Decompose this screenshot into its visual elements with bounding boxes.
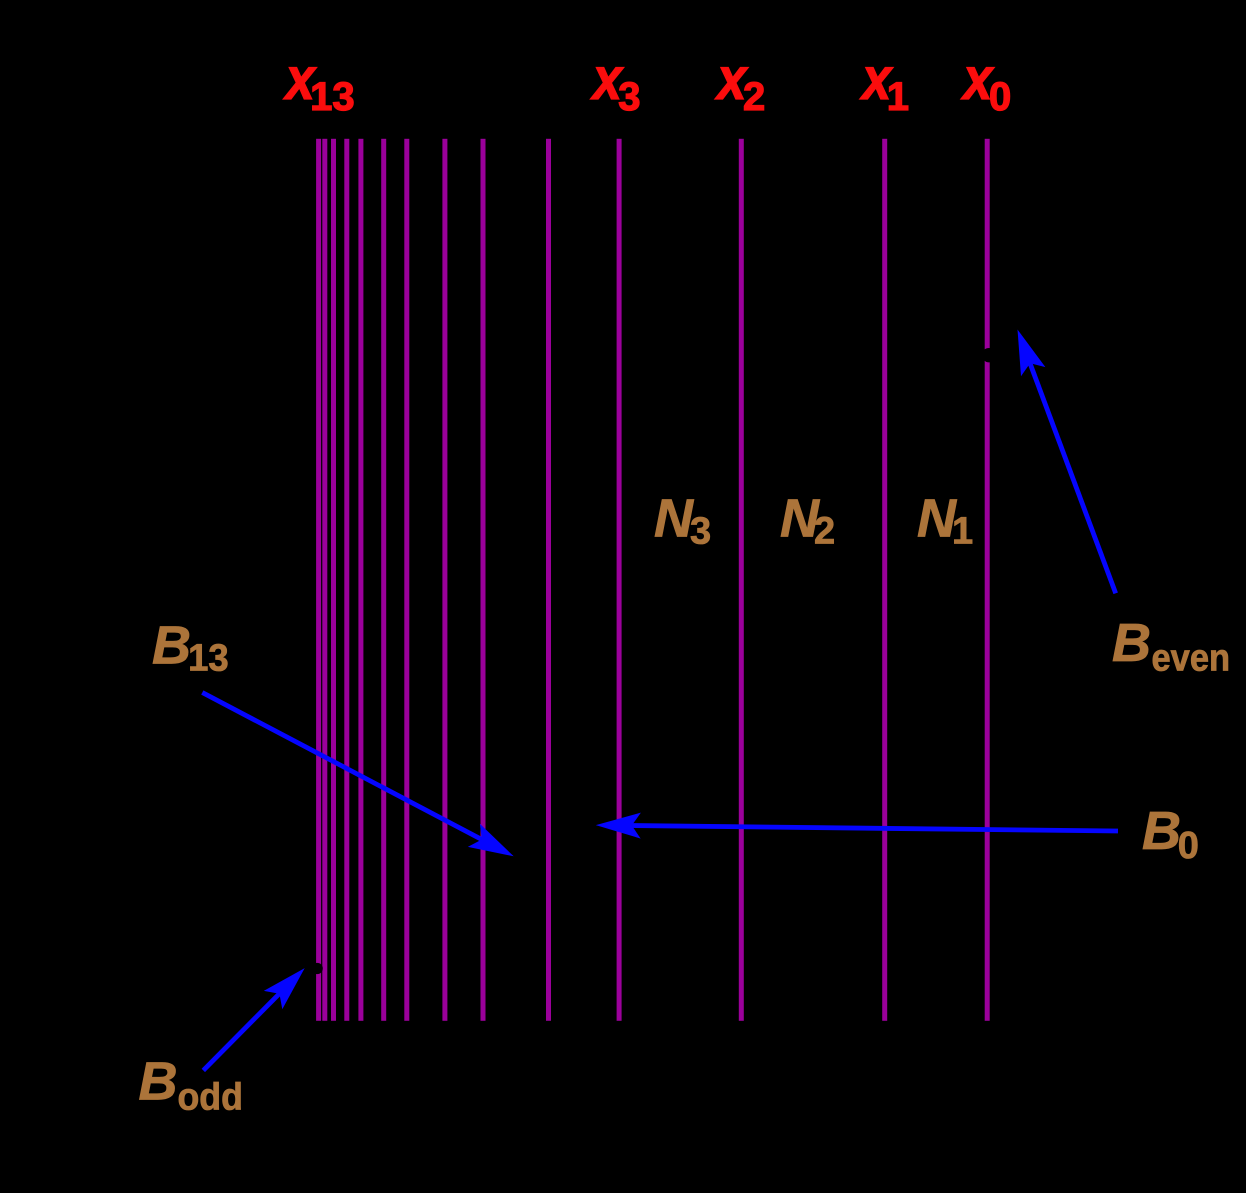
svg-text:1: 1	[952, 511, 973, 553]
arrow to B_even head	[1018, 330, 1046, 377]
line x10 (vertical purple segment at x=346.6)	[344, 139, 349, 1021]
svg-text:B: B	[139, 1052, 178, 1112]
line x0 (vertical purple segment at x=987.0)	[985, 139, 990, 1021]
arrow to B_even shaft	[1029, 362, 1115, 594]
arrow to B_13 head	[468, 824, 514, 857]
point B_even (black dot on line x0)	[982, 348, 996, 362]
line x12 (vertical purple segment at x=324.6)	[322, 139, 327, 1021]
svg-text:13: 13	[310, 75, 355, 119]
line x6 (vertical purple segment at x=444.7)	[442, 139, 447, 1021]
line x9 (vertical purple segment at x=360.7)	[358, 139, 363, 1021]
svg-text:3: 3	[690, 511, 711, 553]
arrow to B_odd shaft	[203, 992, 280, 1070]
point B_odd (black dot on line x13)	[312, 963, 323, 974]
line x3 (vertical purple segment at x=618.9)	[617, 139, 622, 1021]
svg-text:odd: odd	[178, 1075, 243, 1117]
line x4 (vertical purple segment at x=548.3)	[546, 139, 551, 1021]
svg-text:0: 0	[989, 75, 1011, 119]
svg-text:N: N	[917, 488, 957, 548]
svg-text:B: B	[152, 616, 191, 676]
svg-text:N: N	[654, 488, 694, 548]
arrow to B_13 shaft	[202, 693, 483, 841]
line x5 (vertical purple segment at x=482.8)	[481, 139, 486, 1021]
svg-text:13: 13	[188, 636, 229, 679]
line x13 (vertical purple segment at x=318.4)	[316, 139, 321, 1021]
line x11 (vertical purple segment at x=333.3)	[331, 139, 336, 1021]
line x1 (vertical purple segment at x=884.5)	[882, 139, 887, 1021]
svg-text:2: 2	[743, 75, 765, 119]
svg-text:B: B	[1142, 801, 1181, 861]
svg-text:even: even	[1152, 636, 1231, 679]
line x8 (vertical purple segment at x=383.5)	[381, 139, 386, 1021]
svg-text:B: B	[1112, 613, 1151, 673]
svg-text:2: 2	[814, 511, 835, 553]
arrow to B_0 shaft	[630, 826, 1118, 832]
line x2 (vertical purple segment at x=741.1)	[739, 139, 744, 1021]
svg-text:0: 0	[1178, 825, 1199, 867]
svg-text:1: 1	[887, 75, 909, 119]
svg-text:3: 3	[618, 75, 640, 119]
line x7 (vertical purple segment at x=406.6)	[404, 139, 409, 1021]
arrow to B_odd head	[264, 968, 305, 1009]
arrow to B_0 head	[596, 813, 641, 839]
